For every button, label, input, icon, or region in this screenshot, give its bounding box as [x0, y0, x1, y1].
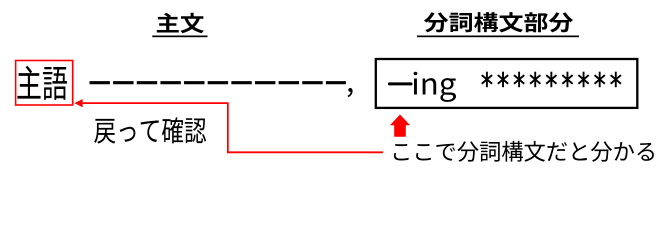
- label 戻って確認: [94, 117, 206, 143]
- asterisk 9: [611, 72, 621, 88]
- red elbow connector from box to 主語: [82, 103, 383, 152]
- comma: [348, 88, 353, 97]
- asterisk 4: [530, 72, 540, 88]
- black box of participle phrase: [376, 59, 638, 108]
- red arrowhead pointing at 主語: [74, 99, 82, 107]
- label ここで分詞構文だと分かる: [394, 141, 654, 162]
- asterisk 1: [482, 72, 492, 88]
- red block arrow pointing up at box: [390, 115, 410, 137]
- heading 分詞構文部分: [424, 12, 573, 32]
- red box around 主語: [16, 61, 73, 106]
- underline of heading 分詞構文部分: [417, 36, 579, 38]
- heading 主文: [157, 13, 204, 34]
- asterisk 5: [546, 72, 556, 88]
- underline of heading 主文: [152, 36, 207, 38]
- asterisk 7: [578, 72, 588, 88]
- dashed line of main clause: [90, 81, 346, 84]
- asterisk 3: [514, 72, 524, 88]
- asterisk 2: [498, 72, 508, 88]
- asterisk 6: [562, 72, 572, 88]
- label 主語: [17, 66, 67, 100]
- thick dash before ing: [388, 82, 413, 85]
- asterisk 8: [595, 72, 605, 88]
- text ing: [414, 72, 456, 102]
